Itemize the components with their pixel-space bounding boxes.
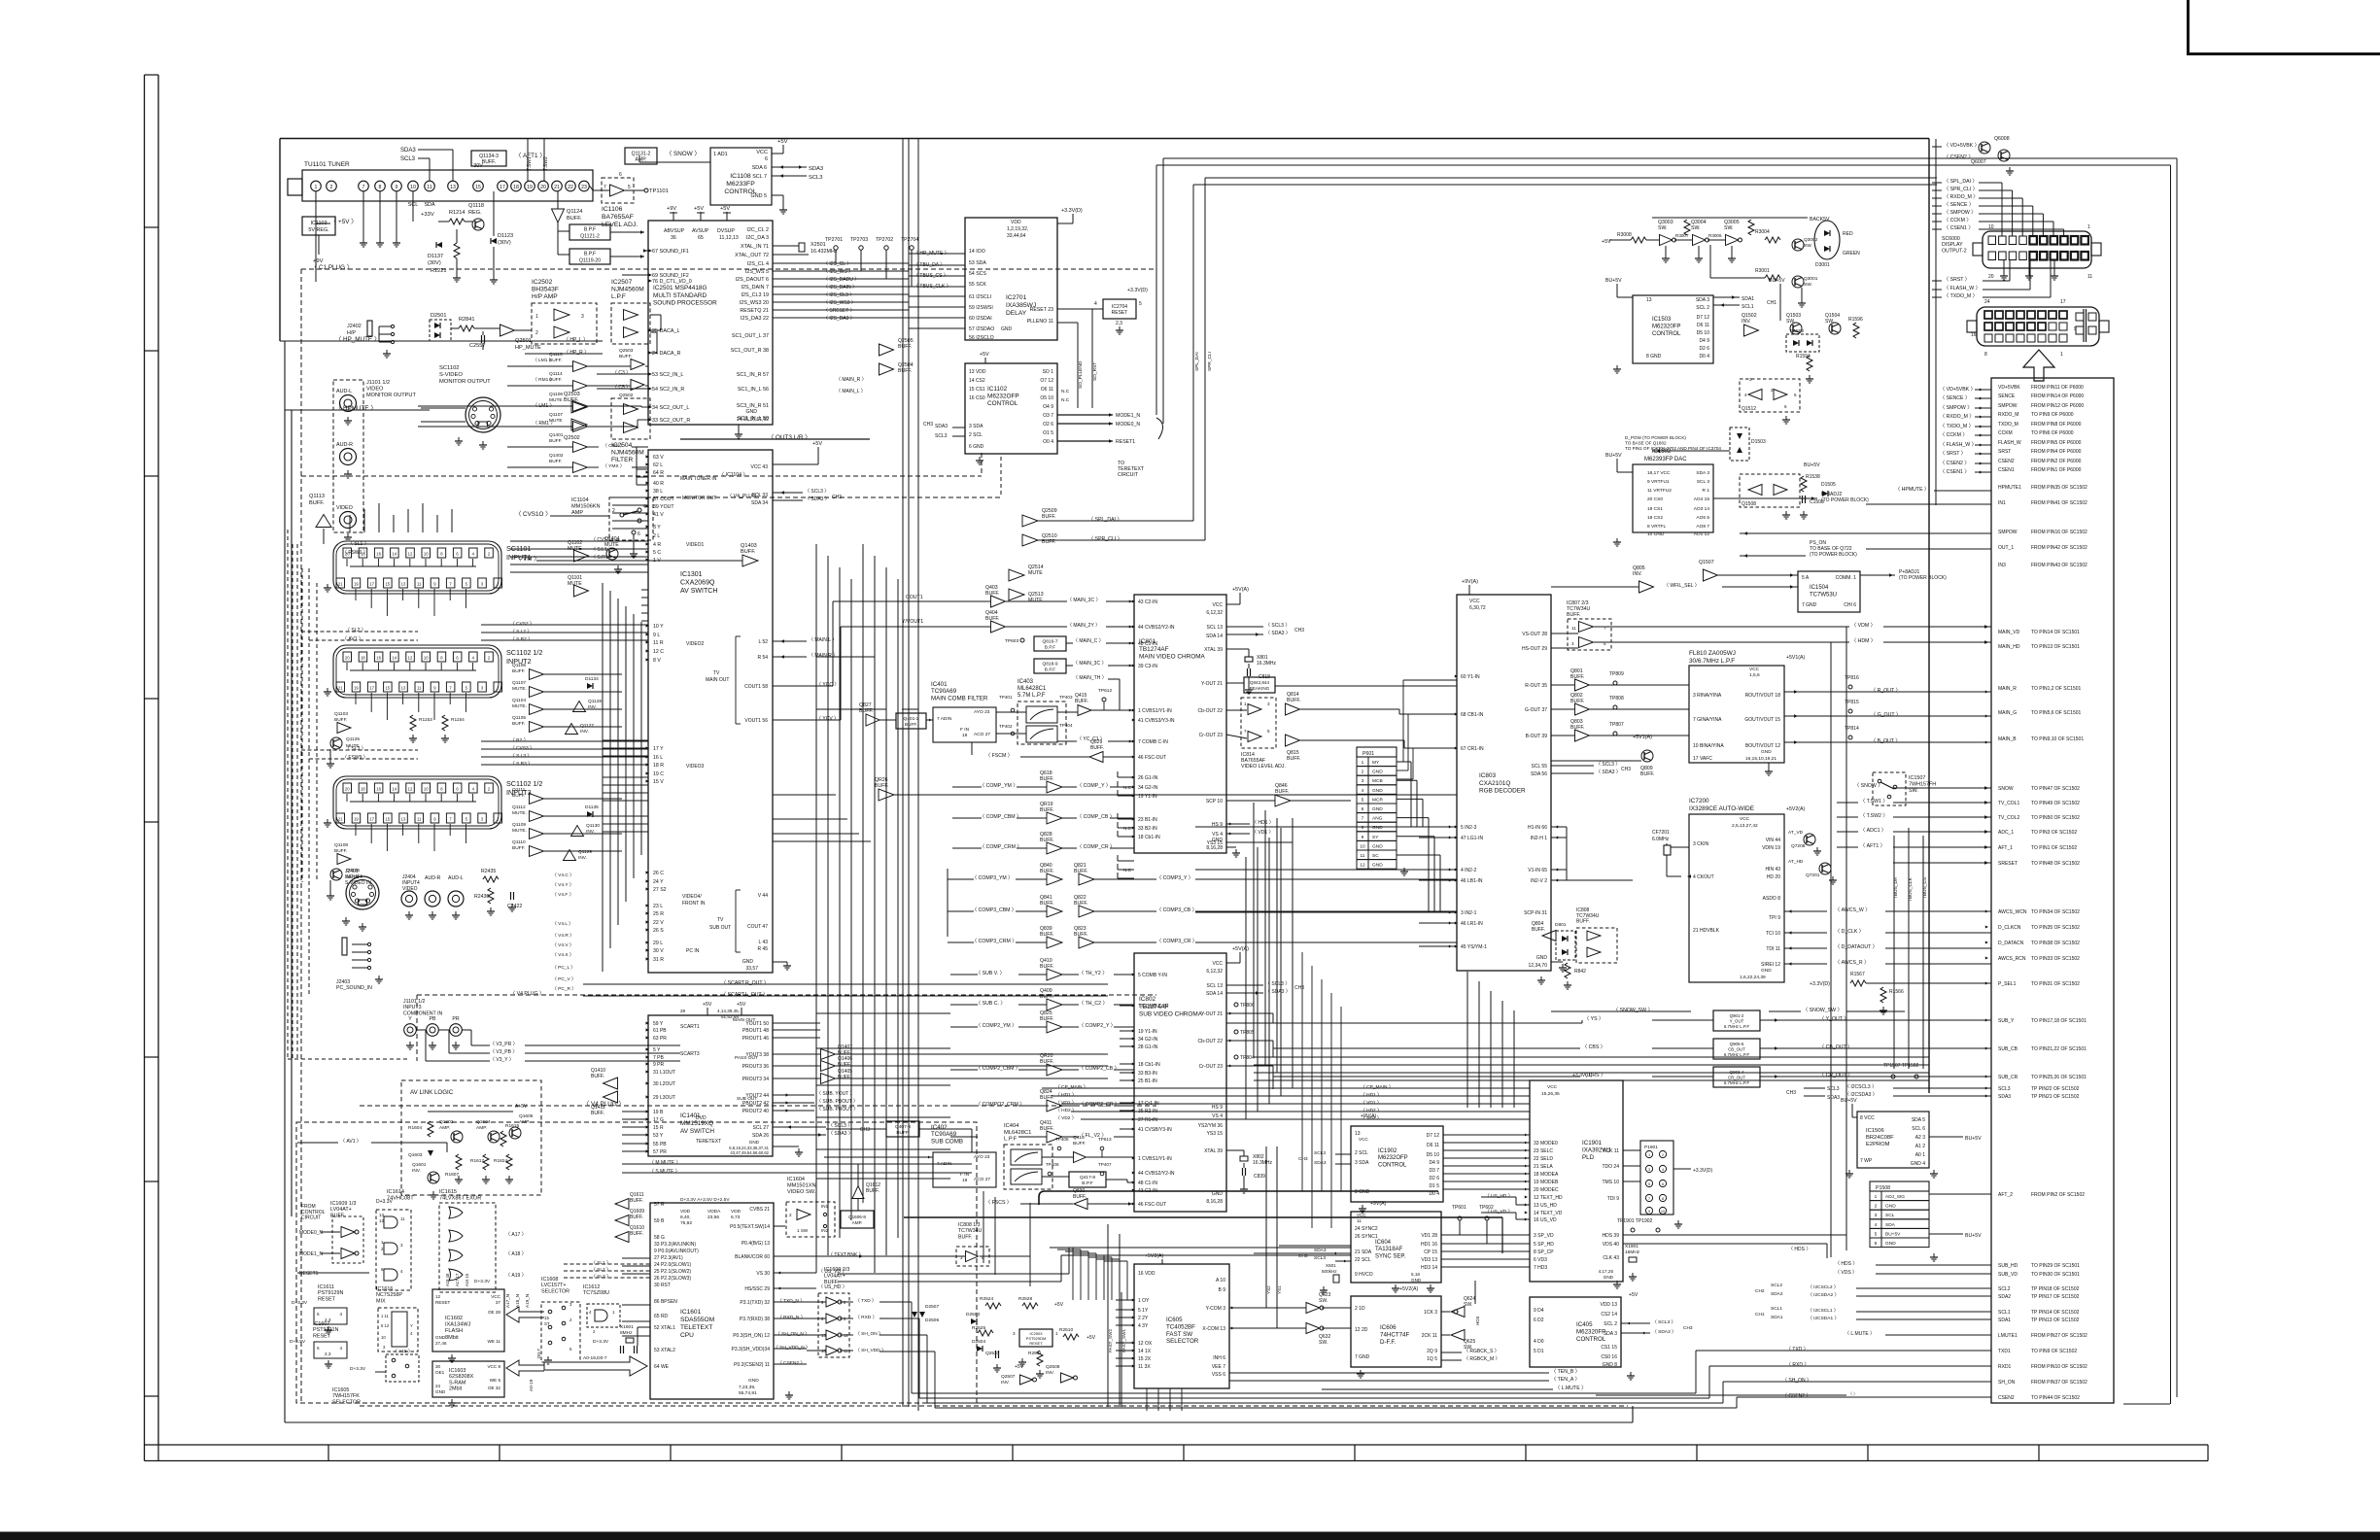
I2S bus stubs right of IC2501 [773, 262, 821, 264]
svg-text:+5V: +5V [720, 206, 730, 212]
Q1508 dashed inverter pair [1740, 474, 1800, 507]
svg-text:AUD-L: AUD-L [448, 875, 464, 881]
Q1130 INV [571, 826, 584, 837]
svg-text:HIN 43: HIN 43 [1765, 867, 1780, 873]
svg-text:AUD-R: AUD-R [336, 442, 353, 448]
svg-text:IC1506: IC1506 [1866, 1128, 1884, 1134]
svg-text:9: 9 [1362, 835, 1364, 840]
svg-text:TO PIN25,26 OF SC1501: TO PIN25,26 OF SC1501 [2031, 1075, 2087, 1080]
svg-text:Q1112: Q1112 [512, 804, 526, 810]
svg-text:Y-OUT 21: Y-OUT 21 [1201, 1011, 1223, 1017]
svg-text:+5V2(A): +5V2(A) [1399, 1286, 1418, 1292]
svg-text:IC1602: IC1602 [445, 1316, 463, 1321]
svg-text:INV.: INV. [1046, 1370, 1054, 1376]
svg-text:41 CVBS3/Y3-IN: 41 CVBS3/Y3-IN [1138, 718, 1175, 724]
svg-text:MCR: MCR [1372, 797, 1383, 803]
svg-text:TO PIN5,6 OF SC1501: TO PIN5,6 OF SC1501 [2031, 710, 2082, 716]
svg-text:CS0 16: CS0 16 [1601, 1354, 1617, 1360]
svg-text:AV LINK LOGIC: AV LINK LOGIC [410, 1089, 454, 1096]
svg-text:GND: GND [1411, 1278, 1422, 1283]
svg-text:30 RST: 30 RST [654, 1283, 671, 1288]
svg-text:23,56: 23,56 [707, 1215, 719, 1220]
svg-text:M6233FP: M6233FP [726, 181, 755, 188]
svg-text:Q1111: Q1111 [512, 787, 526, 793]
svg-text:IC1611: IC1611 [318, 1284, 334, 1290]
svg-text:YS1: YS1 [1277, 1285, 1282, 1294]
svg-text:IC404: IC404 [1004, 1123, 1019, 1129]
svg-text:〈 HDS 〉: 〈 HDS 〉 [1835, 1261, 1857, 1267]
svg-text:TV: TV [717, 917, 724, 923]
svg-text:8: 8 [1662, 1197, 1664, 1201]
svg-text:OE1: OE1 [435, 1370, 445, 1375]
svg-text:BUFF.: BUFF. [1640, 771, 1654, 777]
svg-text:BU+5V: BU+5V [1841, 1098, 1857, 1104]
svg-text:MONITOR OUT: MONITOR OUT [682, 496, 716, 501]
wire COUT1 rail [814, 685, 833, 687]
svg-text:N.C: N.C [1061, 397, 1070, 403]
HD1 VD1 chevrons at IC801 [1226, 823, 1250, 825]
svg-text:GOUT/VOUT 15: GOUT/VOUT 15 [1744, 717, 1780, 723]
svg-text:SDA1: SDA1 [1998, 1318, 2011, 1323]
svg-text:PST9129N: PST9129N [318, 1290, 343, 1296]
svg-text:R2510: R2510 [1059, 1327, 1073, 1333]
svg-text:GND: GND [1604, 1275, 1614, 1280]
svg-text:+33V: +33V [421, 212, 434, 218]
svg-text:〈 B_OUT 〉: 〈 B_OUT 〉 [1871, 737, 1900, 744]
svg-text:P0.4(B/G) 13: P0.4(B/G) 13 [742, 1241, 770, 1247]
svg-text:〈 SRESET 〉: 〈 SRESET 〉 [823, 308, 855, 314]
svg-text:R1154: R1154 [451, 717, 465, 723]
svg-text:〈 HD2 〉: 〈 HD2 〉 [1361, 1108, 1382, 1113]
svg-text:R2525: R2525 [972, 1325, 985, 1331]
GND at IC1401 bottom [773, 1146, 799, 1147]
svg-text:33 B2-IN: 33 B2-IN [1138, 826, 1157, 832]
svg-text:6: 6 [1875, 1241, 1878, 1247]
Q1403 BUFF [742, 555, 758, 566]
svg-text:33,44,64: 33,44,64 [1007, 233, 1026, 239]
wire: main vertical bus x929 [902, 139, 904, 1408]
svg-text:P0.2(CSEN2) 11: P0.2(CSEN2) 11 [734, 1362, 770, 1368]
svg-text:〈 CSEN2 〉: 〈 CSEN2 〉 [1944, 154, 1974, 160]
svg-text:(30V): (30V) [498, 240, 511, 246]
svg-text:CP 15: CP 15 [1424, 1249, 1437, 1255]
svg-text:〈 SDA3 〉: 〈 SDA3 〉 [1652, 1329, 1676, 1335]
svg-text:MUTE: MUTE [568, 581, 582, 587]
svg-text:24 DACA_R: 24 DACA_R [652, 351, 680, 357]
svg-text:IC605: IC605 [1166, 1317, 1183, 1323]
svg-text:PBOUT2 42: PBOUT2 42 [742, 1101, 769, 1107]
svg-text:〈 L.MUTE 〉: 〈 L.MUTE 〉 [1845, 1331, 1875, 1337]
OUT3 L/R rail [680, 438, 870, 440]
svg-text:SUB_CR: SUB_CR [1998, 1075, 2018, 1080]
wire: stub bracket vertical x1992 [1935, 139, 1937, 505]
svg-text:SDA 56: SDA 56 [1531, 771, 1547, 777]
svg-text:ABVSUP: ABVSUP [664, 228, 685, 234]
svg-text:〈 V3_PR 〉: 〈 V3_PR 〉 [490, 1042, 518, 1047]
svg-text:〈 SCL3 〉: 〈 SCL3 〉 [1652, 1319, 1675, 1325]
IC405 M62320FP CONTROL [1530, 1297, 1621, 1367]
GND at IC803 [1551, 961, 1563, 963]
svg-text:IC1601: IC1601 [680, 1309, 702, 1316]
P601 pin 2 GND [1357, 767, 1397, 776]
svg-text:D5 10: D5 10 [1427, 1152, 1440, 1158]
svg-text:19: 19 [527, 185, 533, 190]
svg-text:〈 SDA3 〉: 〈 SDA3 〉 [1265, 631, 1291, 636]
IC1301 CXA2069Q AV SWITCH [648, 450, 773, 973]
svg-text:8 VCC: 8 VCC [1860, 1115, 1875, 1121]
svg-text:8: 8 [1984, 352, 1987, 358]
svg-text:17 Y: 17 Y [653, 746, 664, 752]
svg-text:57 PR: 57 PR [653, 1149, 667, 1155]
svg-text:BUFF.: BUFF. [875, 783, 888, 789]
bus: YS rail from IC802 [1226, 1022, 1582, 1024]
svg-text:CB_OUT: CB_OUT [1728, 1047, 1745, 1052]
wires VS/HS out [1551, 633, 1578, 634]
svg-text:CH3: CH3 [860, 1127, 870, 1133]
svg-text:D2504: D2504 [972, 1339, 985, 1345]
P1901 pin 6 [1659, 1180, 1666, 1186]
P6000 pin row1 col7 [2049, 311, 2056, 319]
svg-text:〈 A17 〉: 〈 A17 〉 [505, 1232, 527, 1238]
svg-text:FRONT IN: FRONT IN [682, 901, 706, 907]
Q623 Q632 SW inverters [1306, 1303, 1320, 1314]
svg-text:11 VRTFU2: 11 VRTFU2 [1647, 488, 1672, 494]
svg-text:SPR_CLI: SPR_CLI [1207, 352, 1213, 371]
TXD_N RXD_N stubs [774, 1301, 807, 1303]
svg-text:〈 I2CSDA2 〉: 〈 I2CSDA2 〉 [1808, 1292, 1839, 1298]
svg-text:FLASH: FLASH [445, 1328, 463, 1334]
svg-text:10: 10 [424, 787, 429, 792]
svg-text:〈 I2S_WS3 〉: 〈 I2S_WS3 〉 [823, 300, 856, 306]
svg-text:(TO POWER BLOCK): (TO POWER BLOCK) [1899, 575, 1947, 581]
svg-text:TXD1: TXD1 [1998, 1349, 2011, 1354]
svg-text:BUFF.: BUFF. [549, 377, 562, 383]
Y/CB/CR LPF boxes [1713, 1010, 1760, 1031]
svg-text:BUFF.: BUFF. [1532, 927, 1545, 933]
svg-text:SELECTOR: SELECTOR [1166, 1338, 1199, 1345]
svg-text:5 SP_HD: 5 SP_HD [1534, 1242, 1554, 1248]
svg-text:TO PIN47 OF SC1502: TO PIN47 OF SC1502 [2031, 786, 2080, 792]
svg-text:ADJ_SIG: ADJ_SIG [1885, 1194, 1905, 1200]
svg-text:FROM PIN2 OF SC1502: FROM PIN2 OF SC1502 [2031, 1192, 2085, 1198]
svg-text:D1135: D1135 [585, 804, 599, 810]
svg-text:〈 Y_OUT 〉: 〈 Y_OUT 〉 [1819, 1015, 1848, 1022]
P1508 pin 4 SDA [1870, 1219, 1929, 1229]
svg-text:MODE0_N: MODE0_N [1116, 422, 1140, 428]
MODE0_N MODE1_N inverters [332, 1216, 363, 1263]
Q417-8 B.P.F box [1069, 1172, 1106, 1187]
svg-text:J2402: J2402 [347, 324, 362, 329]
svg-text:Q2537: Q2537 [985, 1351, 1000, 1356]
dashed bus: C1_PLUG boundary [301, 268, 1156, 270]
svg-text:R1596: R1596 [1848, 317, 1863, 323]
buffer Q618 [1047, 781, 1062, 793]
svg-text:SCL2: SCL2 [1998, 1286, 2011, 1292]
svg-text:1: 1 [2087, 224, 2090, 230]
svg-text:Q2507: Q2507 [1001, 1374, 1016, 1380]
svg-text:BUFF.: BUFF. [1074, 932, 1087, 938]
svg-text:19 MODEB: 19 MODEB [1534, 1180, 1559, 1185]
svg-text:SCL1: SCL1 [1771, 1306, 1782, 1312]
svg-text:INV.: INV. [1001, 1380, 1010, 1386]
svg-text:SW.: SW. [1786, 319, 1795, 325]
svg-text:9: 9 [396, 185, 398, 190]
svg-text:2 1D: 2 1D [1355, 1306, 1365, 1312]
svg-text:D1134: D1134 [585, 676, 599, 682]
bus: vertical corridor left of IC1301 [602, 583, 604, 972]
svg-text:MULTI STANDARD: MULTI STANDARD [653, 292, 707, 299]
svg-text:63 V: 63 V [653, 455, 664, 461]
bus: corridor above bottom strip [360, 1405, 1628, 1407]
P1508 pin 3 SCL [1870, 1210, 1929, 1219]
SC6000 pin 18 [2009, 252, 2017, 260]
IC1106 BA7655AF LEVEL ADJ dashed box [602, 178, 634, 203]
svg-text:I2S_DAOUT 6: I2S_DAOUT 6 [736, 277, 769, 283]
svg-text:54 SCS: 54 SCS [969, 271, 986, 277]
svg-text:SCART1: SCART1 [680, 1024, 700, 1030]
svg-text:CH3: CH3 [923, 422, 933, 428]
svg-text:AWCS_WCN: AWCS_WCN [1998, 909, 2027, 915]
svg-text:31 R: 31 R [653, 957, 664, 963]
svg-text:〈 MAIN.R 〉: 〈 MAIN.R 〉 [809, 653, 838, 659]
svg-text:Y: Y [410, 1323, 413, 1328]
svg-text:IC604: IC604 [1375, 1240, 1392, 1246]
svg-text:GND: GND [1885, 1241, 1896, 1247]
svg-text:〈 COMP_CRM 〉: 〈 COMP_CRM 〉 [980, 843, 1022, 850]
svg-text:〈 SRST 〉: 〈 SRST 〉 [1944, 276, 1970, 283]
svg-text:RESET: RESET [313, 1333, 331, 1339]
svg-text:BUFF.: BUFF. [1040, 807, 1053, 813]
svg-text:GND: GND [748, 1378, 759, 1384]
svg-text:〈 HD1 〉: 〈 HD1 〉 [1252, 820, 1274, 826]
svg-text:15 V: 15 V [653, 779, 664, 785]
svg-text:2: 2 [1771, 388, 1774, 393]
wires amp to IC2501 DACA [650, 314, 661, 316]
svg-text:C2422: C2422 [507, 904, 522, 909]
svg-text:GND: GND [742, 959, 754, 965]
svg-text:SCL1: SCL1 [1998, 1310, 2011, 1316]
svg-text:12: 12 [408, 656, 413, 661]
svg-text:〈 PC_L 〉: 〈 PC_L 〉 [552, 965, 575, 971]
svg-text:6: 6 [1784, 404, 1787, 409]
svg-text:Q1602: Q1602 [439, 1119, 454, 1125]
svg-text:A2 3: A2 3 [1915, 1135, 1926, 1141]
svg-text:1CK 3: 1CK 3 [1424, 1310, 1437, 1316]
svg-text:9 PR: 9 PR [653, 1062, 665, 1068]
svg-text:〈 SPL_DAI 〉: 〈 SPL_DAI 〉 [1944, 178, 1978, 185]
P6000 pin row1 col8 [2059, 311, 2067, 319]
svg-text:〈 HD2 〉: 〈 HD2 〉 [1055, 1108, 1077, 1113]
svg-text:〈 SUB. PBOUT 〉: 〈 SUB. PBOUT 〉 [816, 1099, 858, 1105]
svg-text:〈 COMP2_YM 〉: 〈 COMP2_YM 〉 [976, 1022, 1017, 1029]
svg-text:D+3.3V A+2.5V D+2.5V: D+3.3V A+2.5V D+2.5V [680, 1197, 730, 1203]
svg-text:BUFF.: BUFF. [334, 848, 347, 854]
svg-text:TO PIN14 OF SC1501: TO PIN14 OF SC1501 [2031, 630, 2080, 635]
svg-text:4 D0: 4 D0 [1534, 1339, 1544, 1345]
svg-text:TPI 9: TPI 9 [1769, 915, 1780, 921]
svg-text:BU+5V: BU+5V [1605, 453, 1622, 459]
Q403 Q404 buffers [991, 596, 1006, 607]
svg-text:D-F.F.: D-F.F. [1380, 1339, 1396, 1346]
wires bottom stubs [1983, 280, 2010, 282]
svg-text:S-RAM: S-RAM [449, 1380, 466, 1386]
svg-text:11: 11 [400, 1216, 405, 1221]
svg-text:Q1113: Q1113 [309, 494, 325, 499]
svg-text:RESET: RESET [318, 1296, 336, 1302]
svg-text:33,57: 33,57 [745, 966, 758, 972]
svg-text:〈 COMP3_CR 〉: 〈 COMP3_CR 〉 [1156, 938, 1197, 944]
svg-text:PLD: PLD [1582, 1154, 1595, 1161]
svg-text:〈 WFIL_SEL 〉: 〈 WFIL_SEL 〉 [1664, 583, 1700, 589]
svg-text:D5 10: D5 10 [1697, 330, 1710, 336]
SCL3 SDA3 stubs at IC801 [1226, 626, 1263, 628]
svg-text:A17 17: A17 17 [455, 1273, 460, 1286]
svg-text:12 TEXT_HD: 12 TEXT_HD [1534, 1195, 1563, 1201]
svg-text:20: 20 [345, 656, 350, 661]
svg-text:Y-OUT 21: Y-OUT 21 [1201, 681, 1223, 687]
GND at IC1301 [773, 961, 787, 963]
svg-text:TP809: TP809 [1609, 671, 1624, 677]
SC6000 pin 19 [1999, 252, 2007, 260]
svg-text:7 COMB C-IN: 7 COMB C-IN [1138, 1004, 1168, 1010]
IC802 TB1274AF SUB VIDEO CHROMA [1134, 953, 1226, 1212]
svg-text:SDA555OM: SDA555OM [680, 1317, 714, 1323]
svg-text:VDD: VDD [1011, 220, 1021, 225]
svg-text:〈 COMP3_Y 〉: 〈 COMP3_Y 〉 [1156, 874, 1193, 881]
svg-text:+5V: +5V [694, 206, 704, 212]
bus: IC802 left entry wires [1120, 974, 1134, 975]
svg-text:8,16,28: 8,16,28 [1206, 1199, 1223, 1205]
svg-text:+9V: +9V [667, 206, 676, 212]
svg-text:19 Y1-IN: 19 Y1-IN [1138, 1029, 1157, 1035]
svg-text:1 CVBS1/Y1-IN: 1 CVBS1/Y1-IN [1138, 708, 1172, 714]
svg-text:〈 V4.V 〉: 〈 V4.V 〉 [552, 942, 574, 948]
bus: horizontals into IC402 [824, 1156, 914, 1158]
bus: wires IC605 left entries [1116, 1299, 1134, 1301]
MAIN.L MAIN.R chevrons [773, 640, 807, 642]
svg-text:MM1506KN: MM1506KN [571, 504, 601, 510]
svg-text:IN1: IN1 [1998, 500, 2006, 506]
svg-text:2 2Y: 2 2Y [1138, 1316, 1149, 1321]
svg-text:SMPOW: SMPOW [1998, 530, 2018, 535]
svg-text:P601: P601 [1362, 751, 1374, 757]
svg-text:10: 10 [424, 656, 429, 661]
svg-text:BUFF.: BUFF. [898, 368, 912, 374]
svg-text:VIDEO LEVEL ADJ.: VIDEO LEVEL ADJ. [1241, 764, 1286, 770]
svg-text:〈 MAIN_C 〉: 〈 MAIN_C 〉 [1073, 638, 1104, 644]
tuner pin 7 [359, 181, 369, 191]
svg-text:〈 TEN_A 〉: 〈 TEN_A 〉 [1551, 1376, 1580, 1383]
B.P.F Q1119-20 box [569, 249, 610, 264]
svg-text:15: 15 [385, 817, 390, 822]
svg-text:GND 4: GND 4 [1911, 1161, 1926, 1167]
P601 connector [1357, 747, 1397, 757]
svg-text:R1607: R1607 [445, 1172, 459, 1178]
svg-text:BUFF.: BUFF. [549, 438, 562, 444]
svg-text:FROM PIN42 OF SC1502: FROM PIN42 OF SC1502 [2031, 545, 2087, 551]
svg-text:〈 V4.S 〉: 〈 V4.S 〉 [552, 952, 574, 958]
svg-text:43,47,49,54,56,60,62: 43,47,49,54,56,60,62 [730, 1150, 769, 1155]
svg-text:IC808 1/3: IC808 1/3 [958, 1222, 981, 1228]
svg-text:2,3: 2,3 [1116, 321, 1122, 326]
svg-text:IC1507: IC1507 [1909, 775, 1925, 781]
svg-text:〈 MAIN_L 〉: 〈 MAIN_L 〉 [836, 389, 866, 394]
svg-text:MAIN_VD: MAIN_VD [1998, 630, 2020, 635]
svg-text:13: 13 [450, 185, 456, 190]
svg-text:SIREI 12: SIREI 12 [1761, 962, 1780, 968]
svg-text:7 ADIN: 7 ADIN [937, 716, 952, 722]
svg-text:IC1603: IC1603 [449, 1368, 466, 1374]
svg-text:2 SCL: 2 SCL [1355, 1150, 1368, 1156]
svg-text:17: 17 [369, 686, 374, 691]
SCART1 pin stub wires [346, 559, 348, 566]
svg-text:Y-COM 3: Y-COM 3 [1206, 1306, 1226, 1312]
svg-text:TO PIN30 OF SC1501: TO PIN30 OF SC1501 [2031, 1272, 2080, 1278]
IC2502 BH3543F H/P AMP dashed [532, 303, 597, 344]
SC6000 pin 20 [1988, 252, 1996, 260]
svg-text:VDD 13: VDD 13 [1600, 1302, 1617, 1308]
big arrow into connector [2023, 350, 2054, 381]
svg-text:〈 I2S_DA3 〉: 〈 I2S_DA3 〉 [823, 316, 855, 322]
IC1901 IXA392WJ PLD [1530, 1080, 1623, 1282]
SC6000 pin 6 [2029, 236, 2037, 245]
svg-text:+5V: +5V [812, 441, 822, 447]
svg-text:〈 D_DATAOUT 〉: 〈 D_DATAOUT 〉 [1835, 943, 1878, 950]
svg-text:Q1105: Q1105 [512, 715, 526, 721]
svg-text:P3.7(RXD) 38: P3.7(RXD) 38 [740, 1317, 770, 1322]
svg-text:〈 VD2 〉: 〈 VD2 〉 [1055, 1115, 1077, 1121]
dashed box: control circuit region [296, 1122, 977, 1403]
svg-text:TO PIN33 OF SC1502: TO PIN33 OF SC1502 [2031, 956, 2080, 962]
svg-text:R3008: R3008 [1617, 232, 1632, 238]
svg-text:3: 3 [1571, 641, 1574, 646]
buffer Q825 [1047, 1021, 1062, 1033]
svg-text:41 V: 41 V [653, 512, 664, 518]
svg-text:D4 9: D4 9 [1429, 1160, 1439, 1166]
TEXT_BNK stub [774, 1255, 826, 1257]
Q829 BUFF [1089, 752, 1103, 763]
svg-text:〈 SH_VDD_N 〉: 〈 SH_VDD_N 〉 [774, 1345, 811, 1351]
svg-text:Q903-4: Q903-4 [1730, 1070, 1744, 1075]
wire: bottom long rail [285, 1421, 1633, 1423]
svg-text:+5V: +5V [737, 1002, 746, 1008]
svg-text:〈 COMP_CR 〉: 〈 COMP_CR 〉 [1077, 843, 1115, 850]
right-side long verticals [2170, 165, 2172, 1404]
svg-text:12: 12 [408, 787, 413, 792]
svg-text:CXA2069Q: CXA2069Q [680, 580, 715, 587]
svg-text:Q1601: Q1601 [412, 1162, 427, 1168]
svg-text:INH 6: INH 6 [1213, 1355, 1225, 1361]
svg-text:4 CKOUT: 4 CKOUT [1693, 874, 1714, 880]
svg-text:Q7208: Q7208 [1791, 843, 1806, 849]
svg-text:6: 6 [1662, 1182, 1664, 1186]
svg-text:SCL 3: SCL 3 [1697, 479, 1709, 485]
bus: table left entry arrows [1985, 626, 1988, 629]
svg-text:CCKM: CCKM [1998, 430, 2013, 436]
P+8ADJ2 arrow [1713, 497, 1817, 499]
svg-text:M62320FP: M62320FP [1652, 324, 1680, 329]
svg-text:30: 30 [435, 1364, 441, 1369]
svg-text:BLANK/COR 60: BLANK/COR 60 [735, 1254, 770, 1260]
svg-text:〈 CMS 〉: 〈 CMS 〉 [603, 443, 625, 449]
IC1401 MM1519XQ AV SWITCH [648, 1015, 773, 1156]
svg-text:MM1519XQ: MM1519XQ [680, 1120, 713, 1127]
SC6000 pin 5 [2040, 236, 2048, 245]
IC605 TC4052BF FAST SW SELECTOR [1134, 1264, 1229, 1388]
svg-text:1: 1 [2060, 352, 2063, 358]
svg-text:8 V: 8 V [653, 658, 661, 664]
svg-text:〈 SRST 〉: 〈 SRST 〉 [1940, 450, 1966, 457]
